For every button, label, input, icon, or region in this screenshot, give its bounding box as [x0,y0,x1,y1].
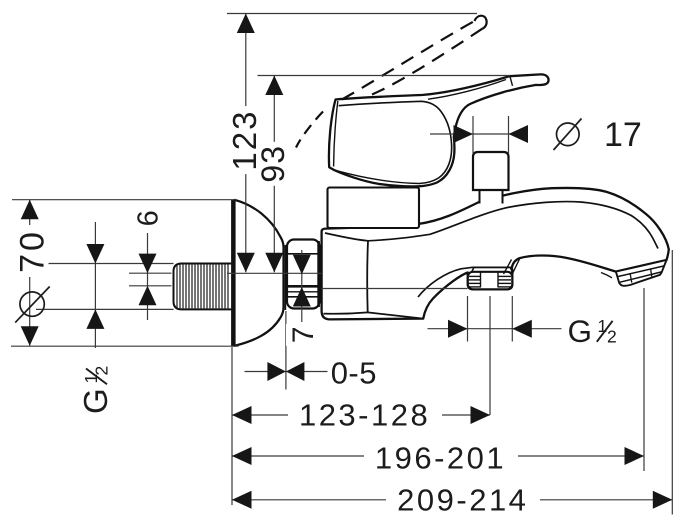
arm inner line [428,80,506,100]
row3 [232,491,252,509]
chamfer + front face inner curve [339,101,452,183]
lever handle (solid position) [329,74,549,186]
0-5 dim [245,371,328,373]
123 vertical [226,106,263,174]
silhouette fill + outline [329,74,549,186]
rear face thick line [231,200,234,347]
G1/2 left vertical [77,357,114,417]
handle collar [328,188,420,229]
inner top contour [325,202,658,249]
ext line 93 [258,75,511,77]
dia 70 vertical [14,225,52,277]
6 vertical [132,206,165,230]
7 dim [293,255,311,274]
front face line [366,241,369,313]
wall nut (eccentric union) [287,240,320,309]
bottom rows [232,414,490,416]
svg-text:G: G [77,388,114,414]
123 top/bottom [237,14,255,34]
dashed raised handle [296,16,487,148]
G1/2 right dim [428,328,562,330]
G1/2 right [448,320,468,338]
centerline A [227,272,322,274]
spout + body outline [322,188,669,319]
G1/2 left: down to pipe top, up to pipe bottom [86,244,104,264]
209-214 [386,483,540,514]
dia70 [21,200,39,220]
tip inner line [510,77,513,86]
dia 17 [554,119,582,151]
inner under-spout line [418,267,473,297]
svg-text:70: 70 [14,229,52,273]
dia 70 circle symbol [15,287,50,323]
diverter knob [473,152,509,190]
svg-text:209-214: 209-214 [397,483,528,518]
diverter knob stem [480,189,503,204]
svg-text:17: 17 [604,116,642,154]
escutcheon (wall flange) [233,200,286,347]
svg-text:7: 7 [287,326,320,343]
dia 70 ext [12,199,237,201]
threaded inlet pipe G1/2 [174,264,234,310]
dia17 [454,125,474,143]
skirt inner line [335,170,420,183]
G1/2 left dim [94,222,96,348]
row2 [232,447,252,465]
svg-text:123-128: 123-128 [299,398,430,433]
dim line 123 [245,14,247,273]
body bottom inner line [324,312,424,318]
pipe edge ext [36,263,174,265]
7 vertical [286,324,320,346]
row1 [232,406,252,424]
svg-text:0-5: 0-5 [331,356,377,391]
spout tip ext [671,250,673,515]
aerator at spout end [601,260,667,286]
0-5 tip to tip [267,362,286,381]
ext line top (123) [227,13,477,15]
dia 70 dim [29,200,31,346]
7 dim [301,250,303,322]
svg-text:6: 6 [133,210,165,226]
svg-text:93: 93 [255,145,291,183]
wall ext line down [231,347,233,505]
123-128 [288,399,442,430]
196-201 [364,440,518,471]
svg-text:G: G [568,313,593,349]
centerline B [129,285,172,287]
svg-text:1: 1 [598,316,608,336]
93 vertical [255,142,291,186]
6 dim [147,233,149,320]
shower outlet fitting G1/2 under spout [468,257,521,289]
dia17 dim [430,133,528,135]
6 dim [139,254,157,274]
inner left edge [334,101,338,167]
svg-text:2: 2 [607,326,617,346]
aerator ext [643,288,645,471]
dim line 93 [273,76,275,273]
93 top/bottom [265,76,283,96]
svg-text:196-201: 196-201 [375,441,506,476]
svg-text:2: 2 [92,366,112,376]
front face line [284,245,286,310]
